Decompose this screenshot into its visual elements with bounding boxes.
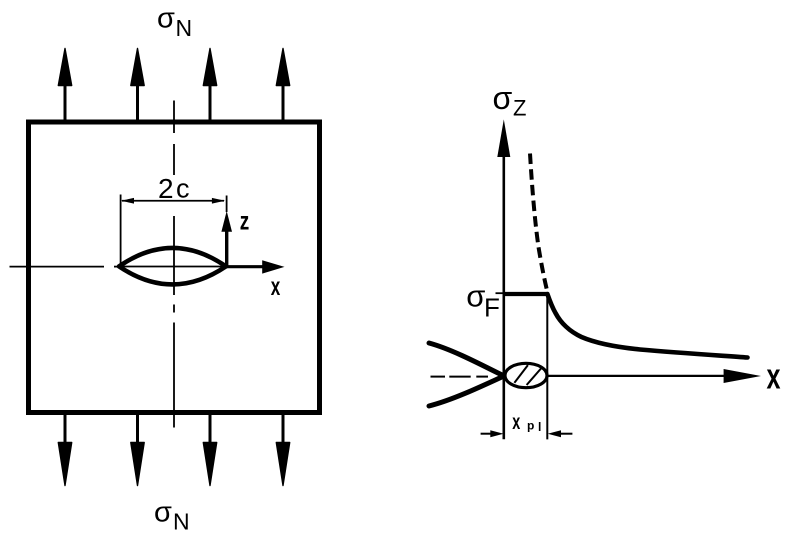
solid stress distribution curve xyxy=(547,294,747,358)
upper crack face curve xyxy=(429,343,504,376)
horizontal centerline of crack (dash-dot) xyxy=(10,266,227,268)
x axis (right diagram) xyxy=(504,369,761,383)
tick from sigma_F label to axis xyxy=(496,292,505,294)
z axis of crack coordinate system xyxy=(221,211,232,267)
svg-text:N: N xyxy=(176,15,193,41)
svg-text:z: z xyxy=(240,205,250,235)
svg-text:p: p xyxy=(527,419,534,433)
svg-text:Z: Z xyxy=(513,96,526,121)
svg-text:σ: σ xyxy=(466,279,485,314)
svg-text:σ: σ xyxy=(157,3,175,35)
crack lens xyxy=(119,248,226,285)
svg-text:l: l xyxy=(538,420,541,434)
vertical centerline of plate (dash-dot) xyxy=(173,101,175,428)
bottom load arrow 4 xyxy=(276,414,289,486)
bottom load arrow 3 xyxy=(203,414,216,486)
lower crack face curve xyxy=(429,376,504,406)
top load arrow 4 xyxy=(276,49,289,121)
plate outline xyxy=(29,122,320,413)
2c label xyxy=(158,173,190,204)
x_pl dimension left arrow xyxy=(481,430,504,437)
svg-text:x: x xyxy=(512,411,520,434)
svg-text:σ: σ xyxy=(154,497,172,529)
2c dimension extension line right xyxy=(226,196,228,213)
x axis of crack coordinate system xyxy=(227,260,285,273)
top load arrow 3 xyxy=(203,49,216,121)
sigma_z axis label xyxy=(493,80,527,121)
top load arrow 1 xyxy=(58,49,71,121)
svg-text:F: F xyxy=(484,293,500,323)
sigma_N bottom label xyxy=(154,497,190,533)
svg-text:σ: σ xyxy=(493,80,513,116)
hatched plastic zone ellipse xyxy=(505,363,547,387)
sigma_F label xyxy=(466,279,500,323)
x_pl dimension right arrow xyxy=(548,430,573,437)
dashed elastic stress curve xyxy=(530,154,547,292)
top load arrow 2 xyxy=(131,49,144,121)
svg-text:N: N xyxy=(173,509,190,533)
sigma_F yield plateau line xyxy=(504,292,547,296)
sigma_z axis (right diagram) xyxy=(497,119,510,439)
bottom load arrow 1 xyxy=(58,414,71,486)
plastic zone right boundary line xyxy=(546,293,548,440)
svg-text:c: c xyxy=(176,174,190,204)
dashed centerline left of crack tip xyxy=(431,376,489,378)
x_pl label xyxy=(512,411,541,434)
2c dimension line with arrows xyxy=(121,198,225,204)
svg-text:x: x xyxy=(271,271,281,301)
2c dimension extension line left xyxy=(120,195,122,265)
sigma_N top label xyxy=(157,3,192,42)
svg-text:x: x xyxy=(767,356,781,397)
bottom load arrow 2 xyxy=(131,414,144,486)
svg-text:2: 2 xyxy=(158,173,174,204)
